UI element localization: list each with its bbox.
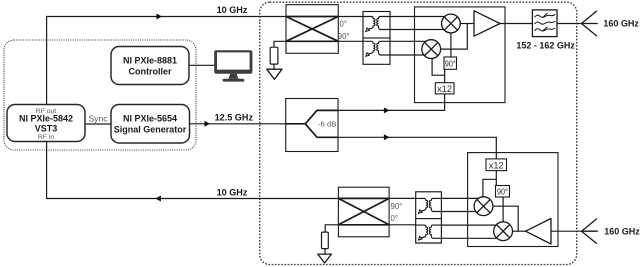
90 deg box TX	[444, 57, 457, 69]
amplifier A2	[526, 219, 552, 245]
VST box NI PXIe-5842 VST3	[7, 105, 85, 142]
svg-text:NI PXIe-8881: NI PXIe-8881	[123, 56, 177, 66]
wire mixer M3 plus to balun B3	[441, 197, 479, 199]
wire balun B2 minus to mixer M2	[390, 54, 425, 56]
wire junction to M3	[483, 179, 496, 197]
wire M2 output up to amp node	[440, 24, 467, 50]
svg-text:NI PXIe-5654: NI PXIe-5654	[123, 114, 177, 124]
left chassis dashed box	[4, 40, 196, 150]
wire junction to M3 RF	[493, 206, 519, 231]
svg-text:90°: 90°	[338, 32, 350, 41]
wire x12 RX to junction	[495, 171, 497, 186]
arrow on TX LO wire	[384, 107, 390, 113]
90 deg box RX	[496, 186, 510, 198]
wire hybrid 0deg port to balun B1	[338, 16, 363, 18]
bottom quadrature hybrid	[338, 187, 389, 237]
wire resistor to ground	[273, 64, 275, 69]
balun B2	[363, 38, 390, 64]
svg-text:90°: 90°	[445, 59, 456, 69]
mixer M4	[494, 222, 513, 241]
wire bottom hybrid isolated port to resistor	[325, 225, 338, 232]
arrow on top 10 GHz wire	[156, 14, 162, 20]
LO wire divider to RX x12	[338, 137, 496, 159]
svg-text:12.5 GHz: 12.5 GHz	[215, 112, 254, 122]
LO wire from divider to x12 TX	[338, 94, 445, 111]
wire filter to TX antenna	[557, 23, 582, 25]
svg-text:0°: 0°	[340, 20, 347, 29]
wire hybrid 90deg port to balun B2	[338, 40, 363, 42]
monitor icon	[214, 50, 252, 81]
top quadrature hybrid	[286, 5, 338, 54]
controller box NI PXIe-8881	[111, 47, 189, 85]
svg-text:Signal Generator: Signal Generator	[114, 125, 187, 135]
converter dashed box	[260, 2, 577, 264]
svg-text:152 - 162 GHz: 152 - 162 GHz	[516, 41, 575, 51]
terminating resistor bottom	[322, 232, 329, 249]
monitor wire	[189, 64, 215, 66]
RF out wire (10 GHz up and right)	[47, 17, 286, 105]
svg-text:160 GHz: 160 GHz	[604, 226, 640, 236]
ground bottom	[318, 254, 332, 263]
arrow on 12.5 GHz wire	[204, 121, 210, 127]
mixer M1	[442, 14, 461, 33]
TX antenna	[582, 11, 598, 36]
wire antenna to A2	[551, 230, 582, 232]
terminating resistor top	[270, 47, 278, 64]
balun B3	[416, 192, 442, 219]
x12 multiplier RX	[486, 159, 507, 171]
svg-text:Controller: Controller	[128, 67, 171, 77]
mixer M2	[422, 40, 441, 59]
wire mixer M4 plus to balun B4	[441, 224, 496, 226]
wire resistor to ground bottom	[324, 249, 326, 255]
wire balun B3 to hybrid 90deg port	[389, 197, 416, 199]
svg-text:90°: 90°	[391, 202, 403, 211]
wire M1 to amp with junction from M2	[460, 23, 474, 25]
RX antenna	[582, 219, 598, 244]
amplifier A1	[474, 11, 500, 36]
wire mixer M3 minus to balun B3	[441, 211, 476, 213]
RF in wire (bottom 10 GHz)	[47, 142, 339, 199]
arrow on RX LO wire	[384, 134, 390, 140]
svg-text:10 GHz: 10 GHz	[217, 188, 248, 198]
wire A2 to M4	[512, 230, 525, 232]
svg-text:0°: 0°	[391, 214, 398, 223]
sync wire	[85, 123, 111, 125]
svg-text:160 GHz: 160 GHz	[603, 19, 639, 29]
wire M1 LO from 90 box	[450, 33, 452, 58]
arrow on bottom 10 GHz wire (pointing left)	[155, 196, 161, 202]
wire balun B1 minus to mixer M1	[390, 29, 444, 31]
12.5 GHz wire	[190, 123, 286, 125]
svg-text:RF in: RF in	[38, 134, 54, 141]
balun B1	[363, 12, 390, 39]
wire balun B4 to hybrid 0deg port	[389, 224, 416, 226]
wire balun B2 plus to mixer M2	[390, 40, 426, 42]
mixer M3	[474, 197, 493, 216]
wire 90 box RX to M4	[502, 197, 504, 222]
svg-text:-6 dB: -6 dB	[318, 120, 336, 129]
signal generator box NI PXIe-5654	[111, 105, 190, 144]
wire hybrid isolated port to resistor	[274, 41, 286, 47]
power divider	[286, 99, 338, 152]
wire mixer M4 minus to balun B4	[441, 237, 497, 239]
svg-text:90°: 90°	[497, 187, 508, 197]
svg-text:10 GHz: 10 GHz	[217, 5, 248, 15]
svg-text:Sync: Sync	[88, 114, 108, 124]
svg-text:VST3: VST3	[35, 124, 58, 134]
svg-text:NI PXIe-5842: NI PXIe-5842	[19, 114, 73, 124]
balun B4	[416, 219, 442, 243]
x12 multiplier TX	[435, 83, 454, 94]
RX subcircuit box	[468, 153, 558, 247]
wire x12 to junction to M2 and 90 box	[432, 58, 445, 75]
ground top	[267, 69, 282, 79]
bandpass filter	[532, 10, 557, 37]
svg-text:x12: x12	[489, 160, 504, 170]
wire amp to filter	[500, 23, 532, 25]
svg-text:x12: x12	[437, 84, 452, 94]
TX subcircuit box	[415, 7, 506, 103]
wire balun B1 plus to mixer M1	[390, 16, 446, 18]
